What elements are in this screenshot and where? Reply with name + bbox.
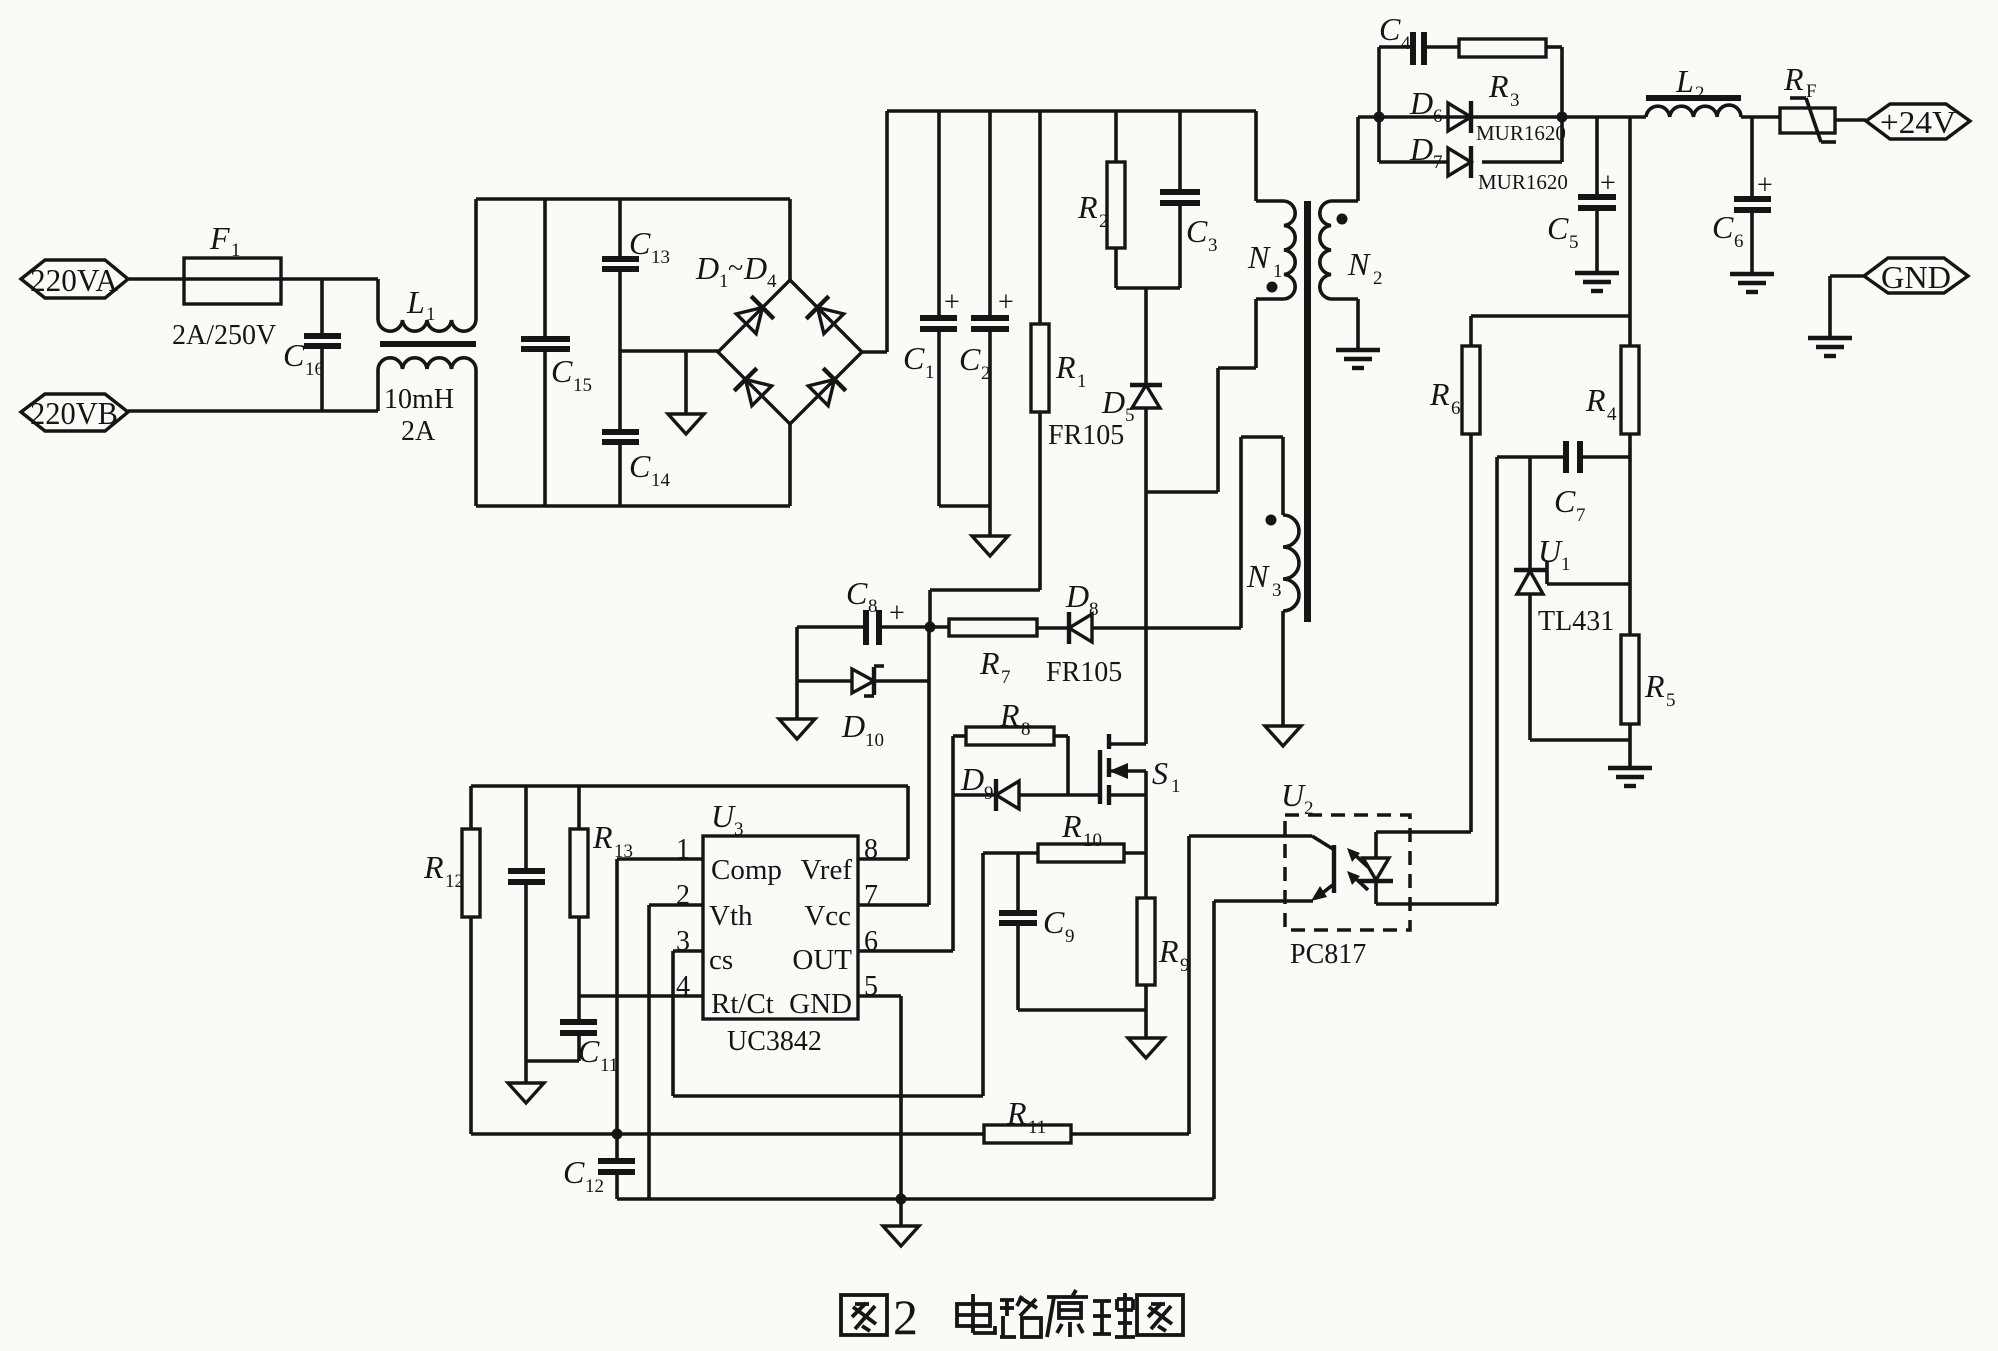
diode D1 upper-left arm [735, 296, 774, 335]
svg-text:R: R [1006, 1095, 1027, 1131]
wire R1 bottom to C8 node [930, 590, 1040, 627]
svg-text:8: 8 [1089, 599, 1099, 620]
resistor R13 [570, 786, 633, 1019]
capacitor C4 [1379, 11, 1424, 65]
capacitor C13 [602, 199, 670, 269]
node dot N2 top [1337, 214, 1348, 225]
node GND output tag [1864, 258, 1968, 295]
svg-text:+: + [1600, 168, 1616, 199]
svg-text:6: 6 [1451, 398, 1461, 419]
svg-text:TL431: TL431 [1538, 606, 1614, 637]
svg-text:220VA: 220VA [30, 262, 118, 298]
svg-text:8: 8 [868, 596, 878, 617]
resistor R3 [1459, 39, 1546, 111]
svg-text:U: U [1281, 777, 1306, 813]
node dot R11 pin1 C12 [612, 1129, 623, 1140]
svg-text:5: 5 [1569, 232, 1579, 253]
node dot C8 R7 Vcc junction [925, 622, 936, 633]
svg-text:R: R [1644, 668, 1665, 704]
wire +24V rail down to R6 R4 divider [1471, 117, 1630, 316]
svg-text:7: 7 [864, 880, 878, 911]
capacitor C8 electrolytic [797, 575, 930, 645]
svg-text:2: 2 [1373, 268, 1383, 289]
diode D4 lower-right arm [807, 368, 846, 407]
svg-text:3: 3 [1510, 90, 1520, 111]
svg-text:11: 11 [1028, 1117, 1046, 1138]
wire C13 to C14 [618, 272, 622, 429]
resistor R4 [1585, 316, 1639, 635]
svg-text:D: D [960, 761, 984, 797]
svg-text:C: C [1379, 11, 1401, 47]
diode D2 upper-right arm [806, 296, 845, 335]
svg-text:6: 6 [1734, 231, 1744, 252]
svg-text:F: F [1806, 81, 1817, 102]
svg-text:C: C [846, 575, 868, 611]
capacitor C7 [1497, 441, 1630, 526]
svg-text:4: 4 [767, 271, 777, 292]
wire TL431 anode to R5 bottom [1530, 738, 1630, 742]
svg-text:5: 5 [1666, 690, 1676, 711]
diode D6 MUR1620 [1409, 85, 1566, 145]
pin 4 [579, 971, 703, 1002]
svg-text:R: R [979, 645, 1000, 681]
ground under bypass cap [508, 1083, 544, 1103]
svg-text:3: 3 [1208, 235, 1218, 256]
svg-text:C: C [1712, 209, 1734, 245]
capacitor C5 electrolytic [1547, 117, 1616, 273]
svg-text:GND: GND [789, 988, 852, 1020]
zener diode D10 [797, 666, 929, 751]
svg-text:7: 7 [1001, 667, 1011, 688]
svg-text:L: L [406, 284, 425, 320]
svg-text:N: N [1247, 239, 1271, 275]
svg-text:D: D [1065, 578, 1089, 614]
svg-text:15: 15 [573, 375, 592, 396]
svg-text:D: D [841, 708, 865, 744]
svg-text:R: R [1061, 808, 1082, 844]
svg-text:1: 1 [1077, 371, 1087, 392]
wire D5 anode down to MOSFET drain [1144, 408, 1148, 744]
pin 1 [617, 834, 703, 865]
pin 8 [858, 834, 908, 865]
svg-text:16: 16 [305, 359, 324, 380]
optocoupler U2 PC817 dashed box [1281, 777, 1410, 970]
capacitor C16 [283, 279, 341, 411]
svg-text:2: 2 [1099, 211, 1109, 232]
caption 图2 电路原理图 [841, 1295, 887, 1335]
ground under R5 [1608, 768, 1652, 786]
node dot N1 bottom [1267, 282, 1278, 293]
svg-text:R: R [1077, 189, 1098, 225]
capacitor C9 [999, 853, 1075, 1010]
wire RF to +24V tag [1835, 118, 1866, 122]
ground under C5 [1575, 273, 1619, 291]
wire HV bus top [887, 109, 1256, 113]
wire S1 source down [1144, 771, 1148, 898]
resistor R11 [984, 1095, 1071, 1143]
wire pin5 down to ground rail [899, 996, 903, 1199]
resistor R7 [930, 619, 1069, 688]
wire R8 side legs [953, 736, 1068, 951]
pin 6 [858, 926, 953, 957]
pin 3 [673, 926, 703, 957]
resistor R1 [1031, 111, 1087, 590]
svg-text:R: R [423, 849, 444, 885]
ground under R9 [1128, 1038, 1164, 1058]
transformer winding N3 [1241, 437, 1299, 726]
svg-text:+: + [1757, 170, 1773, 201]
node 220VB input tag [21, 394, 128, 431]
svg-text:14: 14 [651, 470, 671, 491]
svg-text:4: 4 [1401, 33, 1411, 54]
svg-text:PC817: PC817 [1290, 939, 1366, 970]
svg-text:12: 12 [585, 1176, 604, 1197]
svg-text:1: 1 [1273, 261, 1283, 282]
wire pin2 down to ground rail [647, 905, 651, 1199]
transformer core [1304, 201, 1311, 622]
wire 220VB to L1 [128, 409, 378, 413]
transformer winding N1 [1247, 111, 1295, 299]
svg-text:S: S [1152, 755, 1168, 791]
capacitor C3 [1160, 111, 1218, 288]
svg-text:8: 8 [1021, 719, 1031, 740]
ground under N2 [1336, 350, 1380, 368]
svg-text:U: U [711, 798, 736, 834]
svg-text:C: C [1043, 904, 1065, 940]
capacitor C14 [602, 432, 671, 506]
svg-text:Rt/Ct: Rt/Ct [711, 988, 774, 1020]
resistor R6 [1429, 316, 1480, 832]
capacitor C15 [521, 199, 592, 506]
wire GND tag to ground [1830, 276, 1864, 338]
wire secondary rail D6 row [1379, 115, 1646, 119]
svg-text:OUT: OUT [792, 944, 852, 976]
svg-text:R: R [1158, 933, 1179, 969]
transistor S1 MOSFET [1100, 734, 1181, 805]
svg-text:2: 2 [981, 363, 991, 384]
svg-text:C: C [578, 1033, 600, 1069]
diode D8 FR105 [1046, 578, 1122, 688]
svg-text:+: + [998, 287, 1014, 318]
wire pin3 cs loop [673, 853, 983, 1096]
diode bridge D1~D4 [695, 250, 862, 424]
svg-text:10: 10 [1083, 830, 1102, 851]
wire analog ground rail [617, 901, 1214, 1199]
capacitor C6 electrolytic [1712, 117, 1773, 274]
svg-text:1: 1 [676, 834, 690, 865]
ground under GND tag [1808, 338, 1852, 356]
svg-text:3: 3 [734, 819, 744, 840]
svg-text:+: + [944, 287, 960, 318]
wire N2 top to rectifier node [1358, 115, 1379, 119]
resistor R9 [1137, 898, 1190, 1038]
svg-text:2: 2 [1695, 83, 1705, 104]
svg-text:FR105: FR105 [1048, 420, 1124, 451]
svg-text:2A/250V: 2A/250V [172, 320, 276, 351]
node dot N3 top [1266, 515, 1277, 526]
svg-text:N: N [1347, 246, 1371, 282]
resistor R5 [1621, 635, 1676, 768]
wire N2 bottom to ground [1356, 299, 1360, 350]
transformer winding N2 [1320, 117, 1383, 299]
fuse F1 2A/250V [172, 220, 281, 351]
diode D3 lower-left arm [734, 368, 773, 407]
svg-text:R: R [999, 697, 1020, 733]
svg-text:7: 7 [1433, 152, 1443, 173]
wire dot to ground symbol [899, 1199, 903, 1226]
wire C1 bottom to C2 line [939, 504, 990, 508]
wire EMI filter block frame [476, 199, 790, 506]
inductor L2 [1646, 63, 1741, 117]
svg-text:5: 5 [1125, 405, 1135, 426]
svg-text:L: L [1675, 63, 1694, 99]
svg-text:Comp: Comp [711, 854, 782, 886]
svg-text:UC3842: UC3842 [727, 1026, 822, 1057]
wire D8 anode to N3 [1093, 626, 1241, 630]
diode D9 [953, 761, 1098, 811]
svg-text:C: C [629, 225, 651, 261]
svg-text:9: 9 [984, 783, 994, 804]
svg-text:N: N [1246, 558, 1270, 594]
svg-text:R: R [1429, 376, 1450, 412]
capacitor C12 [563, 1134, 635, 1199]
resistor R2 [1077, 111, 1125, 288]
svg-text:2A: 2A [401, 416, 436, 447]
wire bridge output to HV bus [862, 111, 887, 352]
svg-text:1: 1 [1561, 554, 1571, 575]
svg-text:R: R [1055, 349, 1076, 385]
svg-text:D: D [695, 250, 719, 286]
ground under C1 C2 [972, 536, 1008, 556]
svg-text:FR105: FR105 [1046, 657, 1122, 688]
pin 5 [858, 971, 901, 1002]
svg-text:4: 4 [1607, 404, 1617, 425]
diode D5 FR105 [1048, 384, 1162, 451]
wire Vref top rail [471, 786, 908, 859]
svg-text:13: 13 [614, 841, 633, 862]
resistor R8 [953, 697, 1068, 745]
resistor R10 [983, 808, 1146, 862]
svg-text:4: 4 [676, 971, 690, 1002]
svg-text:5: 5 [864, 971, 878, 1002]
wire C8 left leg [795, 627, 799, 719]
ground under N3 [1265, 726, 1301, 746]
LED of PC817 [1359, 858, 1393, 904]
wire LED cathode to C7 TL431 [1376, 902, 1497, 906]
svg-text:C: C [903, 340, 925, 376]
svg-text:+: + [889, 598, 905, 629]
svg-text:cs: cs [709, 944, 733, 976]
resistor R12 [423, 786, 480, 1134]
wire R6 to LED anode [1376, 832, 1471, 858]
svg-text:2: 2 [893, 1289, 918, 1345]
ground under rail [883, 1226, 919, 1246]
wire R2 C3 junction to D5 [1116, 288, 1180, 384]
svg-text:F: F [209, 220, 230, 256]
svg-text:220VB: 220VB [30, 395, 118, 431]
node dot rectifier output [1557, 112, 1568, 123]
pin 2 [649, 880, 703, 911]
svg-text:2: 2 [1304, 798, 1314, 819]
svg-text:~: ~ [728, 253, 743, 284]
wire opto emitter to ground rail [1214, 899, 1313, 903]
varistor RF [1780, 61, 1836, 142]
node 220VA input tag [21, 260, 128, 298]
svg-text:C: C [551, 353, 573, 389]
capacitor C11 [526, 1022, 618, 1076]
svg-text:7: 7 [1576, 505, 1586, 526]
svg-text:R: R [1585, 382, 1606, 418]
wire Vcc node down to pin 7 [927, 627, 931, 905]
svg-text:R: R [1488, 68, 1509, 104]
svg-text:C: C [959, 341, 981, 377]
svg-text:1: 1 [231, 240, 241, 261]
svg-text:D: D [1101, 384, 1125, 420]
capacitor C2 electrolytic [959, 111, 1014, 536]
svg-text:MUR1620: MUR1620 [1476, 121, 1566, 145]
svg-text:9: 9 [1065, 926, 1075, 947]
wire R11 rail [471, 836, 1189, 1134]
svg-text:MUR1620: MUR1620 [1478, 170, 1568, 194]
capacitor C1 electrolytic [903, 111, 960, 506]
svg-text:Vth: Vth [709, 900, 753, 932]
wire C7 left down to optocoupler cathode [1495, 457, 1499, 904]
svg-text:C: C [283, 337, 305, 373]
svg-text:3: 3 [676, 926, 690, 957]
wire L2 to RF [1741, 115, 1780, 119]
node +24V output tag [1866, 104, 1970, 140]
svg-text:+24V: +24V [1880, 104, 1956, 140]
svg-text:1: 1 [426, 304, 436, 325]
ground under C8 [779, 719, 815, 739]
svg-text:D: D [1409, 131, 1433, 167]
svg-text:R: R [592, 819, 613, 855]
svg-text:D: D [743, 250, 767, 286]
svg-text:10: 10 [865, 730, 884, 751]
svg-text:12: 12 [445, 871, 464, 892]
IC U3 UC3842 [703, 798, 858, 1057]
svg-text:1: 1 [1171, 776, 1181, 797]
wire D7 branch [1379, 117, 1562, 162]
diode D7 MUR1620 [1409, 131, 1568, 194]
node dot rectifier input [1374, 112, 1385, 123]
svg-text:C: C [563, 1154, 585, 1190]
pin 7 [858, 880, 929, 911]
ground under C6 [1730, 274, 1774, 292]
transistor of PC817 [1311, 845, 1334, 901]
svg-text:C: C [1547, 210, 1569, 246]
wire C13/C14 midpoint to bridge left vertex [620, 349, 718, 353]
wire N1 bottom to drain line [1146, 299, 1256, 492]
svg-text:GND: GND [1881, 259, 1951, 295]
svg-text:R: R [1783, 61, 1804, 97]
svg-text:2: 2 [676, 880, 690, 911]
wire 220VA to fuse and L1 [128, 277, 378, 281]
svg-text:Vcc: Vcc [804, 900, 851, 932]
svg-text:1: 1 [925, 362, 935, 383]
svg-text:8: 8 [864, 834, 878, 865]
light arrows inside PC817 [1347, 848, 1368, 890]
wire R11 to opto collector [1189, 836, 1333, 849]
shunt regulator U1 TL431 [1514, 457, 1630, 740]
svg-text:10mH: 10mH [384, 384, 454, 415]
svg-text:3: 3 [1272, 580, 1282, 601]
wire C9 bottom to R9 bottom [1018, 1008, 1146, 1012]
svg-text:13: 13 [651, 247, 670, 268]
svg-text:C: C [1186, 213, 1208, 249]
svg-text:Vref: Vref [801, 854, 853, 886]
svg-text:6: 6 [1433, 106, 1443, 127]
svg-text:C: C [1554, 483, 1576, 519]
svg-text:6: 6 [864, 926, 878, 957]
svg-text:U: U [1538, 533, 1563, 569]
ground under bridge left node [668, 351, 704, 434]
wire pin1 down to R11 node [615, 859, 619, 1134]
svg-text:D: D [1409, 85, 1433, 121]
capacitor Vref bypass [508, 786, 545, 1083]
inductor L1 common-mode choke 10mH 2A [378, 279, 476, 447]
wire C4 R3 snubber branch [1379, 47, 1562, 117]
node dot ground rail [896, 1194, 907, 1205]
svg-text:C: C [629, 448, 651, 484]
